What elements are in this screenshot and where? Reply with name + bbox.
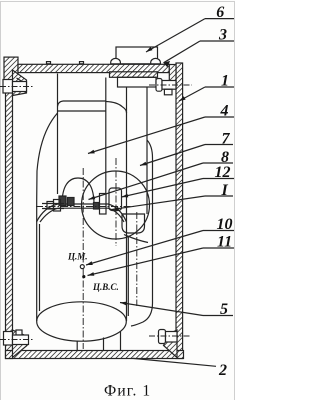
valve body: [118, 77, 157, 87]
CVS dot: [82, 275, 85, 278]
svg-text:Ц.М.: Ц.М.: [67, 252, 88, 262]
flange lines: [42, 203, 64, 205]
tank top seam: [37, 204, 127, 222]
bottom-left bolt centerline: [0, 339, 34, 341]
svg-text:Ц.В.С.: Ц.В.С.: [92, 282, 119, 292]
svg-text:11: 11: [217, 234, 232, 251]
underline label 6: [205, 18, 234, 20]
underline label 8: [203, 162, 233, 164]
underline label I: [205, 195, 233, 197]
vessel bottom floor: [6, 351, 184, 359]
big circle (element 7): [82, 171, 150, 239]
svg-text:Фиг. 1: Фиг. 1: [104, 383, 151, 400]
top-left bolt centerline: [0, 86, 34, 88]
tube from cap left wall: [126, 87, 128, 113]
underline label 4: [205, 116, 234, 118]
tank leg middle: [103, 338, 105, 351]
filler cap (element 6): [116, 47, 158, 64]
cap right lug: [151, 58, 161, 63]
neck left line: [57, 74, 59, 195]
tank left inner wall line: [39, 224, 41, 311]
leader 3: [164, 41, 201, 63]
underline label 11: [203, 247, 234, 249]
neck right line: [105, 78, 107, 194]
column axis centerline: [136, 212, 138, 306]
underline label 10: [203, 230, 234, 232]
nozzle box left (element 8): [100, 194, 107, 215]
dome foot box left: [59, 196, 66, 206]
leader 1b: [112, 196, 205, 210]
top-right bolt centerline: [149, 84, 192, 86]
tank bottom ellipse: [37, 302, 127, 341]
leader 2: [133, 358, 216, 366]
top-right bolt nub: [164, 89, 172, 95]
top-left bolt: [3, 80, 13, 94]
neck crossbar: [58, 110, 106, 112]
bottom-right bolt centerline: [149, 335, 190, 337]
svg-text:2: 2: [218, 362, 227, 379]
underline label 1: [205, 86, 234, 88]
bottom-left bolt: [4, 332, 13, 346]
dome (element 8 zone): [62, 178, 94, 205]
bottom-left bolt tab: [16, 330, 22, 335]
svg-text:5: 5: [220, 301, 228, 318]
scan border frame: [1, 2, 235, 400]
svg-text:12: 12: [215, 164, 231, 181]
leader 8: [89, 163, 204, 200]
column inner arc: [124, 235, 148, 243]
vertical centerline tank axis: [82, 168, 84, 349]
underline label 7: [205, 144, 233, 146]
underline label 3: [200, 40, 234, 42]
leader 12: [122, 179, 204, 198]
leader 11: [88, 248, 204, 276]
bell left sweep: [37, 113, 58, 321]
bottom-right bolt: [159, 330, 166, 344]
underline label 12: [203, 178, 234, 180]
horizontal centerline of nozzle: [36, 206, 136, 208]
bell / tank outer shell (element 4): [58, 101, 64, 107]
vertical centerline circle axis: [115, 158, 117, 246]
tank leg right: [120, 332, 122, 351]
tube from cap right wall: [146, 87, 148, 214]
leader 6: [146, 19, 205, 52]
svg-text:10: 10: [217, 216, 233, 233]
leader 10: [86, 231, 203, 266]
leader 4: [88, 117, 205, 154]
vessel right wall: [176, 63, 183, 359]
column cross line: [122, 213, 127, 215]
bottom-right gusset: [164, 330, 178, 358]
nozzle box right (element 12): [109, 188, 122, 211]
cap left lug: [111, 58, 121, 63]
svg-text:3: 3: [218, 27, 227, 44]
tank leg left: [76, 341, 78, 351]
top-right corner gusset: [169, 65, 176, 89]
svg-text:7: 7: [222, 131, 231, 148]
svg-text:6: 6: [216, 4, 224, 21]
column (element 5): [131, 140, 153, 326]
leader 1: [179, 87, 205, 101]
leader 5: [120, 303, 203, 316]
svg-text:4: 4: [220, 103, 229, 120]
flange plate under lid: [110, 72, 158, 78]
CM node: [80, 265, 84, 269]
vessel left wall: [6, 60, 13, 359]
leader 7: [140, 145, 205, 166]
bottom-left gusset: [13, 330, 28, 358]
flange left endcap: [47, 202, 54, 210]
column inner box: [122, 214, 145, 233]
underline label 5: [203, 315, 233, 317]
lid rivet ticks: [47, 62, 51, 64]
vessel lid (element 3): [18, 64, 169, 72]
svg-text:I: I: [221, 182, 229, 199]
top-right bolt: [156, 79, 162, 92]
top-left corner block: [4, 57, 18, 80]
top-left corner gusset: [13, 70, 27, 96]
dome foot box 2: [68, 198, 75, 206]
svg-text:1: 1: [221, 73, 229, 90]
